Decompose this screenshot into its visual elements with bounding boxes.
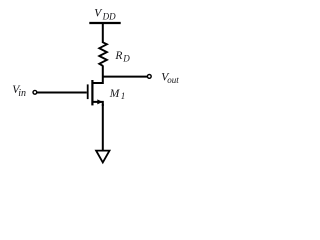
svg-text:in: in — [18, 88, 26, 99]
label V_in — [12, 84, 26, 99]
label R_D — [114, 50, 130, 64]
ground — [96, 151, 109, 163]
source arrow — [97, 99, 102, 104]
svg-text:M: M — [109, 88, 121, 100]
wire source to ground — [102, 104, 104, 150]
label V_out — [161, 71, 179, 85]
terminal circle V_out — [147, 75, 151, 79]
resistor R_D — [99, 42, 107, 66]
transistor M1 gate bar — [87, 84, 89, 99]
wire V_in terminal to gate — [37, 92, 87, 94]
power rail V_DD bar — [89, 22, 120, 24]
svg-text:DD: DD — [102, 12, 116, 22]
terminal circle V_in — [33, 90, 37, 94]
svg-text:D: D — [122, 54, 130, 64]
svg-text:1: 1 — [121, 91, 126, 101]
wire resistor bottom to drain corner — [92, 65, 102, 83]
transistor M1 source lead with arrow corner — [92, 102, 102, 106]
label V_DD — [94, 8, 116, 22]
svg-text:R: R — [114, 50, 122, 62]
wire VDD bar to resistor top — [102, 23, 104, 43]
transistor M1 channel bar — [91, 80, 93, 105]
svg-text:out: out — [167, 75, 179, 85]
wire output node to terminal — [103, 76, 148, 78]
label M1 — [109, 88, 126, 101]
